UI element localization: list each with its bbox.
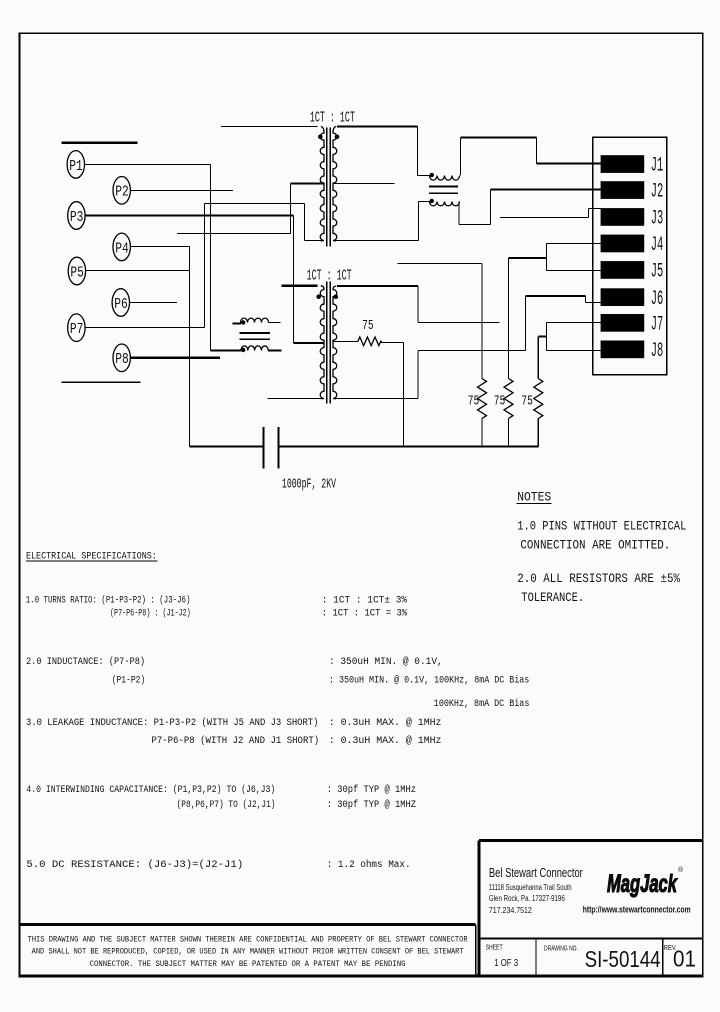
svg-text:P7: P7 bbox=[70, 321, 83, 338]
connector pin pad J6 bbox=[601, 288, 645, 306]
resistor R4 zigzag bbox=[358, 337, 382, 346]
choke L2 polarity dot bottom bbox=[241, 348, 245, 352]
svg-text:J2: J2 bbox=[651, 180, 664, 203]
wire T1 mid-left tap bbox=[291, 182, 325, 184]
wire J3 bbox=[589, 208, 602, 210]
pin P3 bbox=[68, 202, 85, 230]
wire P2 bbox=[130, 190, 233, 192]
wire node P7 to T1 bottom bbox=[205, 203, 305, 205]
wire ground bus left of C1 bbox=[189, 446, 263, 448]
svg-text:75: 75 bbox=[494, 393, 505, 409]
wire J3 run bbox=[500, 217, 589, 219]
svg-text:2.0 INDUCTANCE: (P7-P8): 2.0 INDUCTANCE: (P7-P8) bbox=[26, 655, 145, 667]
svg-text:P8: P8 bbox=[115, 351, 129, 368]
svg-text:3.0 LEAKAGE INDUCTANCE: P1-P3-: 3.0 LEAKAGE INDUCTANCE: P1-P3-P2 (WITH J… bbox=[26, 716, 318, 728]
wire R1 top run bbox=[398, 263, 483, 265]
svg-text:(P7-P6-P8) : (J1-J2): (P7-P6-P8) : (J1-J2) bbox=[110, 607, 191, 619]
connector pin pad J5 bbox=[601, 261, 645, 279]
wire J2 bbox=[491, 188, 602, 190]
pin P2 bbox=[113, 177, 130, 205]
svg-text:1000pF, 2KV: 1000pF, 2KV bbox=[282, 478, 336, 492]
svg-text:P3: P3 bbox=[70, 208, 84, 225]
transformer T1 core bbox=[327, 128, 330, 247]
wire ground bus right of C1 bbox=[279, 446, 539, 448]
svg-text:: 0.3uH MAX. @ 1MHz: : 0.3uH MAX. @ 1MHz bbox=[329, 717, 442, 728]
wire T1 bottom-left riser bbox=[304, 204, 306, 241]
wire L1 bottom coil right drop bbox=[458, 202, 460, 225]
wire P6 bbox=[130, 302, 177, 304]
connector pin pad J7 bbox=[601, 314, 645, 332]
svg-text:SHEET: SHEET bbox=[486, 944, 503, 952]
wire S1 drop bbox=[417, 286, 419, 323]
svg-text:4.0 INTERWINDING CAPACITANCE:: 4.0 INTERWINDING CAPACITANCE: (P1,P3,P2)… bbox=[26, 783, 275, 795]
wire J7 bbox=[547, 322, 602, 324]
wire S2 riser bbox=[417, 351, 419, 399]
wire P3 vertical bbox=[293, 216, 295, 343]
svg-text:J8: J8 bbox=[651, 340, 664, 363]
confidential note box bbox=[20, 925, 476, 976]
connector pin pad J1 bbox=[601, 155, 645, 173]
wire L2 bottom coil right stub bbox=[268, 349, 282, 351]
svg-text:(P1-P2): (P1-P2) bbox=[112, 674, 146, 686]
svg-text:MagJack: MagJack bbox=[607, 871, 678, 898]
svg-text:P6: P6 bbox=[114, 295, 128, 312]
svg-text:: 30pf TYP @ 1MHz: : 30pf TYP @ 1MHz bbox=[327, 783, 416, 795]
wire J1 drop bbox=[536, 138, 538, 164]
wire P4 horizontal bbox=[130, 246, 189, 248]
pin P8 bbox=[113, 344, 130, 372]
transformer T2 left winding bbox=[320, 286, 324, 399]
resistor R3 zigzag bbox=[534, 379, 543, 419]
pin P5 bbox=[68, 257, 85, 285]
svg-text:: 30pf TYP @ 1MHZ: : 30pf TYP @ 1MHZ bbox=[327, 799, 417, 811]
wire J6 jog bbox=[585, 296, 587, 303]
transformer T2 right winding bbox=[333, 286, 337, 399]
wire T2 top-right lead bbox=[337, 285, 418, 287]
svg-text:75: 75 bbox=[362, 318, 373, 334]
wire R1 lower lead bbox=[481, 419, 483, 447]
svg-text:: 350uH MIN. @ 0.1V, 100KHz, 8: : 350uH MIN. @ 0.1V, 100KHz, 8mA DC Bias bbox=[329, 674, 529, 686]
capacitor C1 plates bbox=[264, 427, 279, 468]
svg-text:: 1.2 ohms Max.: : 1.2 ohms Max. bbox=[327, 859, 411, 870]
transformer T2 polarity dot right bbox=[334, 294, 339, 299]
svg-text:NOTES: NOTES bbox=[517, 490, 551, 505]
wire P5 bbox=[86, 270, 190, 272]
svg-text:J4: J4 bbox=[651, 234, 664, 257]
title block outline bbox=[20, 840, 703, 976]
wire R3 tap bbox=[538, 335, 546, 337]
svg-text:2.0 ALL RESISTORS ARE ±5%: 2.0 ALL RESISTORS ARE ±5% bbox=[517, 571, 681, 586]
svg-text:: 1CT : 1CT = 3%: : 1CT : 1CT = 3% bbox=[322, 607, 408, 619]
svg-text:J6: J6 bbox=[651, 287, 664, 310]
svg-text:01: 01 bbox=[673, 945, 696, 971]
wire P8 bbox=[130, 356, 220, 359]
svg-text:75: 75 bbox=[521, 393, 532, 409]
svg-text:CONNECTOR. THE SUBJECT MATTER: CONNECTOR. THE SUBJECT MATTER MAY BE PAT… bbox=[90, 961, 406, 969]
wire T2 bottom-left lead bbox=[268, 398, 322, 400]
svg-text:75: 75 bbox=[468, 393, 479, 409]
svg-text:1CT : 1CT: 1CT : 1CT bbox=[307, 267, 352, 284]
wire node Q bbox=[177, 233, 290, 235]
pair marker bar top bbox=[62, 142, 138, 145]
wire T1 top-left lead bbox=[221, 126, 317, 128]
wire R1 upper lead bbox=[481, 264, 483, 379]
wire R4 drop bbox=[403, 343, 405, 447]
wire S2 run bbox=[418, 350, 526, 352]
wire J5 bbox=[547, 270, 602, 272]
pin P4 bbox=[113, 233, 130, 261]
svg-text:SI-50144: SI-50144 bbox=[585, 947, 661, 972]
wire L1 bottom-left riser bbox=[418, 202, 420, 241]
wire J2 shelf bbox=[459, 224, 491, 226]
svg-text:P1: P1 bbox=[69, 157, 83, 174]
wire T1 bottom-left lead bbox=[305, 240, 322, 242]
pair marker bar bottom bbox=[62, 381, 141, 383]
transformer T1 right winding bbox=[333, 127, 337, 241]
wire R2 upper lead bbox=[508, 258, 510, 379]
wire P1 to L2 stub bbox=[211, 349, 242, 351]
wire R2 tap bbox=[509, 257, 547, 259]
choke L2 core bbox=[240, 333, 271, 339]
svg-text:11118 Susquehanna Trail South: 11118 Susquehanna Trail South bbox=[489, 884, 572, 892]
wire L2 top coil right stub bbox=[268, 322, 280, 324]
connector pin pad J4 bbox=[601, 235, 645, 253]
connector pin pad J8 bbox=[601, 341, 645, 359]
wire P7 horizontal bbox=[85, 327, 205, 329]
wire L1 top coil left stub bbox=[418, 175, 430, 177]
wire to J1 upper run bbox=[461, 136, 537, 138]
wire P1 horizontal bbox=[85, 164, 211, 166]
choke L1 bottom coil bbox=[430, 202, 460, 206]
svg-text:Bel Stewart Connector: Bel Stewart Connector bbox=[489, 867, 583, 881]
wire R3 lower lead bbox=[537, 419, 539, 447]
svg-text:AND SHALL NOT BE REPRODUCED, C: AND SHALL NOT BE REPRODUCED, COPIED, OR … bbox=[32, 948, 464, 957]
wire R3 upper lead bbox=[537, 337, 539, 379]
svg-text:1 OF 3: 1 OF 3 bbox=[494, 957, 518, 968]
transformer T1 polarity dot left bbox=[318, 135, 323, 140]
wire T2 bottom-right lead bbox=[333, 398, 418, 400]
svg-text:J1: J1 bbox=[651, 154, 664, 177]
resistor R1 zigzag bbox=[478, 379, 487, 419]
svg-text:P2: P2 bbox=[115, 183, 129, 200]
wire J2 riser bbox=[490, 190, 492, 225]
choke L1 polarity dot bottom bbox=[430, 199, 434, 203]
choke L1 core bbox=[429, 187, 458, 194]
svg-text:J3: J3 bbox=[651, 207, 664, 230]
choke L2 top coil bbox=[241, 318, 269, 322]
connector pin pad J2 bbox=[601, 181, 645, 199]
wire T1 top-right lead bbox=[337, 125, 418, 127]
svg-text:: 0.3uH MAX. @ 1MHz: : 0.3uH MAX. @ 1MHz bbox=[329, 735, 442, 746]
svg-text:1CT : 1CT: 1CT : 1CT bbox=[310, 109, 355, 126]
choke L2 polarity dot top bbox=[241, 320, 245, 324]
resistor R2 zigzag bbox=[504, 379, 513, 419]
wire T1 top-right riser to L1 bbox=[417, 127, 419, 177]
transformer T2 polarity dot left bbox=[316, 294, 321, 299]
wire J6 bbox=[586, 302, 602, 304]
svg-text:100KHz, 8mA DC Bias: 100KHz, 8mA DC Bias bbox=[434, 698, 530, 710]
wire T1 bottom-right lead bbox=[333, 240, 419, 242]
svg-text:717.234.7512: 717.234.7512 bbox=[489, 906, 532, 916]
choke L1 polarity dot top bbox=[430, 173, 434, 177]
wire J3 jog riser bbox=[588, 209, 590, 218]
wire L1 top coil right riser bbox=[460, 138, 462, 176]
svg-text:ELECTRICAL SPECIFICATIONS:: ELECTRICAL SPECIFICATIONS: bbox=[26, 550, 157, 562]
svg-text:http://www.stewartconnector.co: http://www.stewartconnector.com bbox=[583, 905, 691, 915]
transformer T1 polarity dot right bbox=[335, 135, 340, 140]
svg-text:5.0 DC RESISTANCE: (J6-J3)=(J2: 5.0 DC RESISTANCE: (J6-J3)=(J2-J1) bbox=[26, 859, 243, 871]
svg-text:J7: J7 bbox=[651, 313, 664, 336]
wire T2 top-left lead bbox=[281, 285, 317, 287]
wire J7-J8 strap bbox=[546, 323, 548, 351]
svg-text:P5: P5 bbox=[70, 264, 84, 281]
wire R4 left lead bbox=[333, 341, 358, 343]
svg-text:Glen Rock, Pa. 17327-9196: Glen Rock, Pa. 17327-9196 bbox=[489, 894, 565, 903]
wire J1 bbox=[537, 163, 602, 165]
pin P7 bbox=[68, 314, 85, 342]
wire S1 run bbox=[418, 322, 500, 324]
wire T1 mid-left riser bbox=[290, 184, 292, 234]
svg-text:DRAWING NO.: DRAWING NO. bbox=[544, 946, 578, 953]
choke L1 top coil bbox=[430, 176, 460, 181]
svg-text:1.0 TURNS RATIO: (P1-P3-P2) :: 1.0 TURNS RATIO: (P1-P3-P2) : (J3-J6) bbox=[26, 595, 191, 606]
wire L1 bottom coil left stub bbox=[419, 201, 430, 203]
choke L2 bottom coil bbox=[241, 346, 268, 351]
wire L2 top coil left stub bbox=[233, 322, 242, 324]
svg-text:THIS DRAWING AND THE SUBJECT M: THIS DRAWING AND THE SUBJECT MATTER SHOW… bbox=[28, 936, 468, 945]
svg-text:J5: J5 bbox=[651, 260, 664, 283]
wire P4 vertical bbox=[189, 247, 191, 447]
transformer T1 left winding bbox=[320, 127, 324, 241]
wire T2 mid-left tap bbox=[294, 342, 325, 344]
wire J6 riser bbox=[525, 296, 527, 351]
wire P7 vertical bbox=[204, 204, 206, 328]
wire R2 lower lead bbox=[508, 419, 510, 447]
wire J6 run bbox=[526, 295, 586, 297]
transformer T2 core bbox=[327, 282, 330, 404]
pin P6 bbox=[112, 289, 129, 317]
wire J4 bbox=[547, 243, 602, 245]
wire P1 vertical bbox=[210, 165, 212, 351]
svg-text:CONNECTION ARE OMITTED.: CONNECTION ARE OMITTED. bbox=[520, 537, 670, 552]
connector J box bbox=[593, 137, 667, 374]
wire R4 right lead bbox=[381, 342, 404, 344]
svg-text:®: ® bbox=[678, 866, 684, 874]
svg-text:P7-P6-P8 (WITH J2 AND J1 SHORT: P7-P6-P8 (WITH J2 AND J1 SHORT) bbox=[151, 735, 319, 747]
svg-text:: 350uH MIN. @ 0.1V,: : 350uH MIN. @ 0.1V, bbox=[329, 656, 443, 667]
pin P1 bbox=[67, 151, 84, 179]
wire J8 bbox=[547, 350, 602, 352]
wire J4-J5 strap bbox=[546, 244, 548, 271]
svg-text:: 1CT : 1CT± 3%: : 1CT : 1CT± 3% bbox=[322, 594, 407, 605]
svg-text:1.0 PINS WITHOUT ELECTRICAL: 1.0 PINS WITHOUT ELECTRICAL bbox=[517, 518, 686, 533]
svg-text:P4: P4 bbox=[115, 240, 129, 257]
wire T1 mid-right tap bbox=[333, 183, 395, 185]
svg-text:TOLERANCE.: TOLERANCE. bbox=[521, 590, 584, 605]
wire P3 horizontal bbox=[85, 214, 294, 216]
connector pin pad J3 bbox=[601, 208, 645, 226]
svg-text:(P8,P6,P7) TO (J2,J1): (P8,P6,P7) TO (J2,J1) bbox=[177, 799, 276, 810]
